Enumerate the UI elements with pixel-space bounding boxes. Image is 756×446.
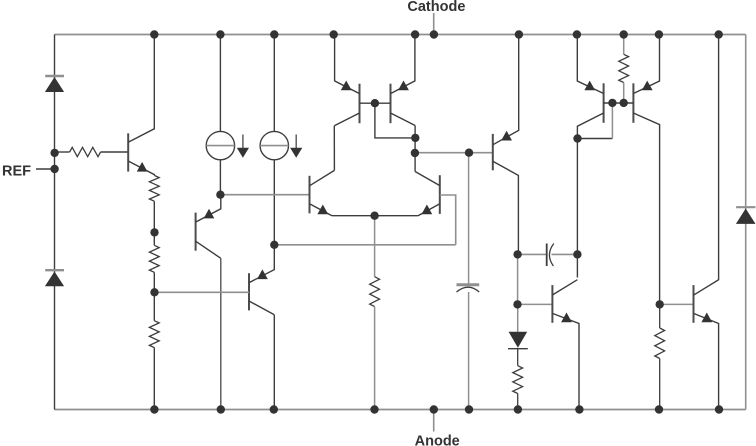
resistor R1 (REF to Q1 base) <box>55 147 129 156</box>
wire left rail <box>54 35 56 410</box>
junction dots interior nodes <box>50 99 664 309</box>
diode D4 (right rail) <box>736 207 756 224</box>
junction dots on bottom rail <box>150 405 723 413</box>
svg-text:Anode: Anode <box>415 434 460 446</box>
wire I1 node to Q4 base <box>220 194 309 196</box>
transistor Q4 (diff pair left NPN) <box>310 170 335 215</box>
wire Q12 base <box>660 303 694 305</box>
wire mirror output node to Q8 base <box>415 152 493 154</box>
resistor R4 (chain bottom) <box>149 321 159 410</box>
svg-text:REF: REF <box>2 163 31 179</box>
resistor R5 (diff tail) <box>370 277 380 307</box>
wire Q6 collector to Q4 collector <box>333 126 335 171</box>
transistor Q10 (right mirror left PNP) <box>577 35 603 139</box>
wire bottom rail (anode bus) <box>55 409 746 411</box>
wire Q5 base over and down <box>440 195 456 245</box>
transistor Q8 (driver NPN) <box>493 35 519 255</box>
resistor R3 (chain middle) <box>149 245 159 320</box>
transistor Q5 (diff pair right NPN) <box>415 172 440 216</box>
wire R5 to anode rail <box>374 307 376 410</box>
junction dots on top rail <box>150 30 723 38</box>
wire top rail (cathode bus) <box>55 34 746 36</box>
wire R3/R4 tap to Q3 base <box>155 291 250 293</box>
wire Q10-Q11 common bases <box>604 102 634 104</box>
wire emitter node to R5 <box>374 216 376 277</box>
capacitor C1 (compensation) <box>457 285 480 292</box>
wire right mirror output down to Q9 collector <box>576 139 578 278</box>
wire Q10 collector to base node <box>577 103 612 139</box>
wire right rail <box>745 35 747 410</box>
current source I1 <box>206 35 249 195</box>
node Anode terminal <box>415 410 460 446</box>
resistor R8 (under D3) <box>513 349 523 410</box>
wire feedback node to I2 output node <box>274 244 455 246</box>
wire Q8 base node down to C1 <box>468 153 470 284</box>
wire Q2 collector to anode rail <box>220 258 222 409</box>
diode D3 (to anode) <box>508 304 528 348</box>
diode D1 (left rail upper) <box>45 76 64 92</box>
node REF terminal <box>2 163 55 179</box>
transistor Q11 (right mirror right PNP) <box>633 35 659 305</box>
node Cathode terminal <box>407 0 465 34</box>
wire diff pair common emitters <box>332 215 418 217</box>
wire C2 left node down to Q9 base node <box>517 254 519 304</box>
transistor Q9 (output NPN lower) <box>552 280 579 410</box>
capacitor C2 (feedback) <box>518 244 578 267</box>
transistor Q12 (output NPN right) <box>694 35 719 410</box>
wire mirror bases to Q7 collector node <box>375 103 415 138</box>
diode D2 (left rail lower) <box>45 270 64 286</box>
resistor R2 (Q1 emitter chain top) <box>149 175 159 245</box>
svg-text:Cathode: Cathode <box>407 0 465 15</box>
transistor Q7 (mirror right PNP) <box>391 35 416 126</box>
wire Q6-Q7 common bases <box>360 102 391 104</box>
wire Q3 emitter to anode rail <box>273 315 275 410</box>
wire Q9 base <box>518 303 553 305</box>
transistor Q2 (left PNP, emitter to I1) <box>196 195 221 259</box>
resistor R7 (Q12 base to anode) <box>655 304 665 409</box>
transistor Q1 (REF input NPN) <box>128 35 154 176</box>
resistor R6 (mirror base bias) <box>619 35 629 104</box>
wire Q7 collector down to Q5 collector <box>414 126 416 172</box>
transistor Q3 (left PNP, emitter to I2) <box>249 245 274 315</box>
wire C1 to anode rail <box>468 292 470 410</box>
transistor Q6 (mirror left PNP) <box>334 35 359 126</box>
current source I2 <box>260 35 302 245</box>
